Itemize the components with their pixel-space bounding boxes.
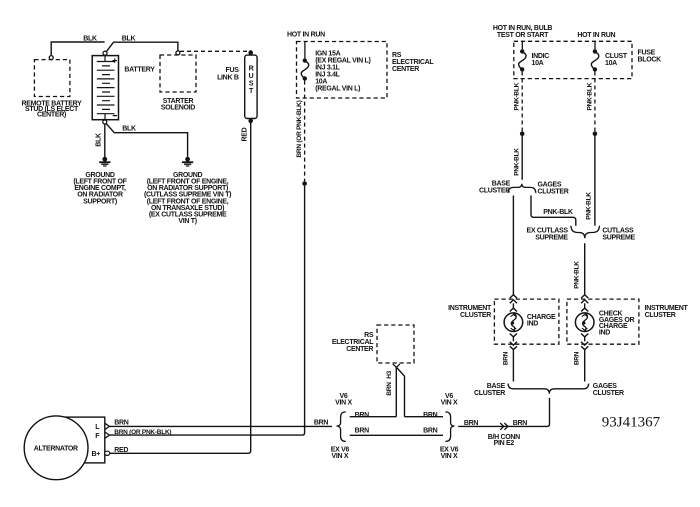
label RS electrical center 1: [392, 52, 434, 73]
svg-text:CLUST: CLUST: [605, 53, 628, 60]
svg-text:BATTERY: BATTERY: [124, 67, 155, 74]
RS electrical center box 1: [297, 42, 388, 99]
svg-text:(EX REGAL VIN L): (EX REGAL VIN L): [315, 58, 370, 65]
wire BRN merge to B/H connector: [458, 398, 549, 427]
wire BRN V6 top-left segment: [350, 416, 397, 418]
fuse CLUST 10A: [591, 41, 598, 71]
wire BRN RS2 left drop: [395, 367, 397, 416]
svg-text:CLUSTER: CLUSTER: [474, 390, 505, 397]
brace split V6/EX V6 left: [337, 412, 346, 442]
starter solenoid box: [160, 55, 196, 92]
svg-text:ALTERNATOR: ALTERNATOR: [34, 446, 78, 453]
label fuse IGN values: [315, 51, 370, 93]
svg-text:CLUSTER: CLUSTER: [645, 312, 676, 319]
svg-text:IGN 15A: IGN 15A: [315, 51, 340, 58]
label EX V6 VIN X right: [440, 446, 459, 460]
label B/H conn pin E2: [488, 434, 520, 447]
brace merge V6/EX V6 right: [445, 412, 454, 442]
label V6 VIN X right: [441, 393, 458, 407]
connector chevrons into left cluster: [510, 295, 517, 312]
label fus link b: [217, 67, 239, 82]
svg-text:VIN X: VIN X: [332, 453, 349, 460]
svg-text:IND: IND: [527, 321, 538, 328]
charge indicator lamp: [504, 313, 523, 332]
wire solenoid to fusible link (dashed): [180, 50, 249, 52]
svg-text:INJ 3.1L: INJ 3.1L: [315, 65, 340, 72]
wire BRN V6 top-right segment: [405, 416, 444, 418]
svg-text:BRN (OR PNK-BLK): BRN (OR PNK-BLK): [296, 100, 303, 157]
svg-text:BLOCK: BLOCK: [638, 57, 662, 64]
wire BLK battery to starter solenoid: [106, 42, 177, 51]
label gages cluster bottom: [593, 383, 624, 397]
svg-text:PIN E2: PIN E2: [494, 440, 515, 447]
svg-text:S: S: [249, 81, 254, 88]
svg-text:BRN: BRN: [386, 382, 393, 396]
label instrument cluster right: [645, 305, 689, 319]
svg-text:U: U: [249, 73, 254, 80]
wire BRN RS2 right drop: [397, 368, 405, 417]
svg-text:BLK: BLK: [83, 36, 97, 43]
wire BLK remote stud to battery: [51, 42, 104, 56]
svg-text:ELECTRICAL: ELECTRICAL: [332, 339, 374, 346]
svg-text:10A: 10A: [605, 60, 617, 67]
svg-text:VIN T): VIN T): [178, 218, 196, 225]
svg-text:CLUSTER: CLUSTER: [593, 390, 624, 397]
svg-text:BASE: BASE: [492, 180, 511, 187]
svg-text:BRN: BRN: [423, 428, 438, 435]
ground left (engine compt): [99, 157, 110, 166]
connector chevrons into right cluster: [581, 295, 588, 312]
connector chevrons out of right cluster: [581, 334, 588, 350]
svg-text:VIN X: VIN X: [441, 453, 458, 460]
svg-text:R: R: [249, 66, 254, 73]
label ground right: [144, 172, 231, 225]
wire BRN alternator L to brace: [110, 425, 332, 427]
wire PNK-BLK CLUST to merge brace: [594, 136, 596, 226]
label EX V6 VIN X left: [331, 446, 350, 460]
wire PNK-BLK dashed below CLUST: [594, 72, 596, 132]
wire BRN below right cluster: [584, 350, 586, 382]
splice dot INDIC: [520, 131, 525, 136]
svg-text:HOT IN RUN, BULB: HOT IN RUN, BULB: [493, 25, 553, 32]
fuse INDIC 10A: [519, 41, 526, 71]
svg-text:BRN: BRN: [423, 412, 438, 419]
connector chevron at RS2 exit: [393, 364, 400, 368]
svg-text:RS: RS: [364, 332, 374, 339]
svg-text:CLUSTER: CLUSTER: [479, 187, 510, 194]
svg-text:10A: 10A: [315, 79, 327, 86]
svg-text:VIN X: VIN X: [441, 399, 458, 406]
svg-text:BLK: BLK: [122, 36, 136, 43]
svg-text:IND: IND: [599, 330, 610, 337]
wire PNK-BLK INDIC to split brace: [521, 136, 523, 180]
svg-text:PNK-BLK: PNK-BLK: [543, 209, 573, 216]
label RUST vertical: [249, 66, 254, 96]
svg-text:RED: RED: [242, 127, 249, 141]
svg-text:BASE: BASE: [487, 383, 506, 390]
label check gages or charge ind: [599, 311, 635, 337]
svg-text:BRN: BRN: [114, 419, 129, 426]
svg-text:CLUSTER: CLUSTER: [460, 312, 491, 319]
wire RED fusible link to alternator B+: [110, 123, 251, 453]
label ex cutlass supreme: [526, 228, 568, 242]
svg-text:RS: RS: [392, 52, 402, 59]
fusible link B RUST: [245, 50, 257, 123]
label fuse block: [638, 50, 662, 64]
svg-text:PNK-BLK: PNK-BLK: [586, 82, 593, 110]
label charge ind: [527, 314, 556, 328]
label CLUST 10A: [605, 53, 628, 67]
svg-text:BRN: BRN: [574, 351, 581, 365]
svg-text:ELECTRICAL: ELECTRICAL: [392, 59, 434, 66]
svg-text:INJ 3.4L: INJ 3.4L: [315, 72, 340, 79]
label base cluster top: [479, 180, 511, 194]
brace merge EX CUTLASS/CUTLASS SUPREME: [571, 226, 599, 238]
label starter solenoid: [161, 98, 195, 112]
label gages cluster top: [538, 182, 569, 196]
fuse block box: [514, 41, 632, 78]
fuse IGN 15A: [301, 42, 308, 81]
wire PNK-BLK dashed below INDIC: [521, 72, 523, 132]
battery B1: [92, 51, 118, 124]
svg-text:B+: B+: [91, 451, 100, 458]
label ground left: [73, 172, 127, 205]
B/H connector arrows: [500, 423, 508, 430]
label hot in run bulb test: [493, 25, 553, 39]
brace split BASE/GAGES cluster: [508, 184, 536, 193]
svg-text:BRN: BRN: [355, 428, 370, 435]
svg-text:CENTER): CENTER): [37, 112, 66, 119]
svg-text:BLK: BLK: [96, 133, 103, 147]
svg-text:LINK B: LINK B: [217, 75, 239, 82]
wire BRN EX V6 bottom segment: [350, 434, 443, 436]
svg-text:FUS: FUS: [225, 67, 239, 74]
remote battery stud terminal: [49, 56, 53, 60]
label V6 VIN X left: [335, 393, 352, 407]
splice dot CLUST: [593, 131, 598, 136]
brace merge BASE/GAGES at bottom: [508, 384, 588, 394]
svg-text:BLK: BLK: [122, 126, 136, 133]
alternator G1: [24, 416, 110, 480]
starter solenoid terminal: [176, 51, 180, 55]
svg-text:FUSE: FUSE: [638, 50, 656, 57]
RS electrical center box 2: [377, 325, 414, 363]
svg-text:SUPREME: SUPREME: [602, 234, 635, 241]
svg-text:SUPREME: SUPREME: [535, 234, 568, 241]
svg-text:PNK-BLK: PNK-BLK: [514, 82, 521, 110]
connector chevrons out of left cluster: [510, 334, 517, 350]
svg-text:INSTRUMENT: INSTRUMENT: [645, 305, 689, 312]
svg-text:BRN: BRN: [502, 351, 509, 365]
svg-text:CENTER: CENTER: [346, 346, 373, 353]
svg-text:BRN: BRN: [513, 420, 528, 427]
instrument cluster box left: [494, 299, 559, 344]
svg-text:BRN: BRN: [464, 420, 479, 427]
label base cluster bottom: [474, 383, 506, 397]
label cutlass supreme: [602, 228, 635, 242]
remote battery stud box: [34, 60, 70, 97]
svg-text:BRN: BRN: [355, 412, 370, 419]
svg-text:SUPPORT): SUPPORT): [83, 198, 117, 205]
svg-text:TEST OR START: TEST OR START: [497, 32, 549, 39]
svg-text:H3: H3: [386, 370, 393, 378]
svg-text:VIN X: VIN X: [335, 399, 352, 406]
svg-text:BRN (OR PNK-BLK): BRN (OR PNK-BLK): [114, 429, 171, 436]
svg-text:93J41367: 93J41367: [602, 414, 661, 430]
svg-text:CENTER: CENTER: [392, 66, 419, 73]
svg-text:GAGES: GAGES: [593, 383, 617, 390]
svg-text:BRN: BRN: [314, 420, 329, 427]
wire PNK-BLK below merge brace: [584, 243, 586, 295]
wire PNK-BLK base cluster leg: [512, 196, 514, 295]
svg-text:RED: RED: [114, 447, 128, 454]
wire PNK-BLK gages cluster leg with jog: [531, 196, 576, 226]
wire BLK battery to grounds: [105, 124, 188, 157]
label remote battery stud: [22, 100, 83, 118]
svg-text:CLUSTER: CLUSTER: [538, 188, 569, 195]
svg-text:HOT IN RUN: HOT IN RUN: [287, 32, 325, 39]
wire BRN below left cluster: [512, 350, 514, 382]
svg-text:PNK-BLK: PNK-BLK: [586, 192, 593, 220]
label instrument cluster left: [448, 305, 492, 319]
instrument cluster box right: [567, 299, 639, 344]
ground right (radiator support): [182, 157, 193, 166]
svg-text:INDIC: INDIC: [532, 53, 550, 60]
svg-text:HOT IN RUN: HOT IN RUN: [577, 32, 615, 39]
splice dot: [302, 181, 307, 186]
svg-text:SOLENOID: SOLENOID: [161, 104, 195, 111]
svg-text:(REGAL VIN L): (REGAL VIN L): [315, 86, 360, 93]
svg-text:PNK-BLK: PNK-BLK: [514, 148, 521, 176]
label INDIC 10A: [532, 53, 550, 67]
svg-text:INSTRUMENT: INSTRUMENT: [448, 305, 492, 312]
wire BRN (OR PNK-BLK) to alternator F: [110, 186, 305, 435]
svg-text:PNK-BLK: PNK-BLK: [573, 261, 580, 289]
label RS electrical center 2: [332, 332, 374, 353]
svg-text:10A: 10A: [532, 60, 544, 67]
wire BRN (OR PNK-BLK) dashed segment: [304, 81, 306, 182]
check gages or charge indicator lamp: [575, 313, 594, 332]
